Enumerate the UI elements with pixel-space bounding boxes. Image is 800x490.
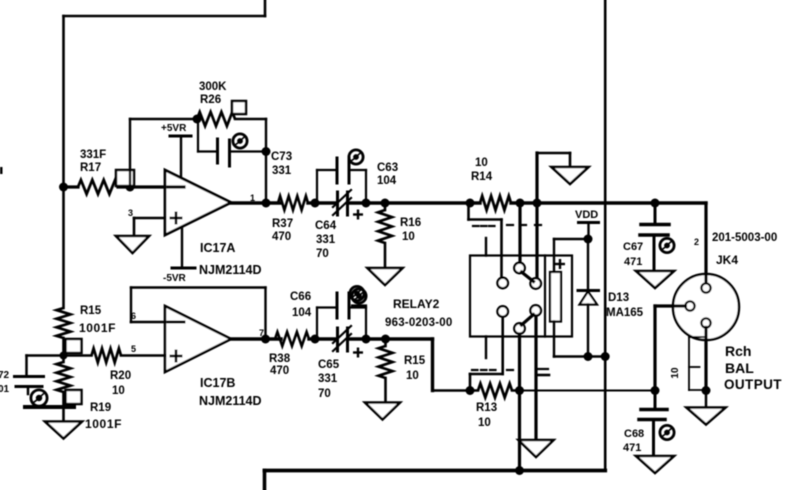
svg-text:IC17B: IC17B <box>200 376 235 390</box>
svg-text:470: 470 <box>270 365 289 377</box>
svg-text:01: 01 <box>0 384 10 395</box>
svg-text:72: 72 <box>0 370 10 381</box>
svg-text:5: 5 <box>131 344 136 354</box>
svg-text:70: 70 <box>318 388 331 400</box>
svg-text:-5VR: -5VR <box>163 273 187 284</box>
svg-text:1001F: 1001F <box>79 321 116 335</box>
svg-text:C64: C64 <box>315 220 337 232</box>
svg-text:C65: C65 <box>318 359 340 371</box>
svg-text:331: 331 <box>316 234 336 246</box>
svg-text:1: 1 <box>250 193 255 203</box>
svg-text:R16: R16 <box>400 217 421 229</box>
svg-text:963-0203-00: 963-0203-00 <box>385 317 452 329</box>
svg-text:331: 331 <box>318 373 338 385</box>
svg-text:1001F: 1001F <box>85 417 122 431</box>
svg-text:10: 10 <box>475 157 488 169</box>
svg-text:10: 10 <box>112 385 125 397</box>
svg-text:+5VR: +5VR <box>161 123 187 134</box>
svg-text:R38: R38 <box>269 353 291 365</box>
svg-text:C66: C66 <box>290 291 311 303</box>
svg-text:300K: 300K <box>199 81 227 93</box>
svg-text:70: 70 <box>316 248 329 260</box>
svg-text:471: 471 <box>624 256 642 268</box>
svg-text:10: 10 <box>402 231 415 243</box>
svg-text:3: 3 <box>128 208 133 218</box>
svg-text:10: 10 <box>670 367 681 379</box>
svg-text:R14: R14 <box>471 171 493 183</box>
svg-text:C67: C67 <box>623 241 643 253</box>
svg-text:104: 104 <box>377 175 397 187</box>
svg-text:331: 331 <box>272 165 292 177</box>
svg-text:R15: R15 <box>404 355 426 367</box>
svg-text:10: 10 <box>478 417 491 429</box>
svg-text:C68: C68 <box>624 428 644 440</box>
svg-text:BAL: BAL <box>725 360 754 376</box>
svg-text:R19: R19 <box>90 402 111 414</box>
svg-text:Rch: Rch <box>725 343 751 359</box>
svg-text:471: 471 <box>623 442 641 454</box>
svg-text:R20: R20 <box>110 370 131 382</box>
svg-text:R15: R15 <box>80 305 102 317</box>
svg-text:MA165: MA165 <box>606 307 644 319</box>
svg-text:C63: C63 <box>377 162 398 174</box>
svg-text:NJM2114D: NJM2114D <box>199 263 262 277</box>
svg-text:R37: R37 <box>272 218 293 230</box>
svg-text:470: 470 <box>272 231 291 243</box>
svg-text:10: 10 <box>406 370 419 382</box>
svg-text:R13: R13 <box>476 402 497 414</box>
svg-text:VDD: VDD <box>575 209 598 221</box>
svg-text:IC17A: IC17A <box>200 241 235 255</box>
svg-text:D13: D13 <box>608 292 629 304</box>
svg-text:NJM2114D: NJM2114D <box>199 394 262 408</box>
svg-text:R17: R17 <box>80 162 101 174</box>
svg-text:331F: 331F <box>80 149 106 161</box>
svg-text:201-5003-00: 201-5003-00 <box>712 232 777 244</box>
svg-text:JK4: JK4 <box>716 253 738 267</box>
svg-text:OUTPUT: OUTPUT <box>724 377 782 392</box>
svg-text:C73: C73 <box>271 151 292 163</box>
svg-text:RELAY2: RELAY2 <box>393 297 440 311</box>
svg-text:104: 104 <box>292 307 312 319</box>
svg-text:R26: R26 <box>200 94 221 106</box>
svg-text:2: 2 <box>694 237 699 247</box>
